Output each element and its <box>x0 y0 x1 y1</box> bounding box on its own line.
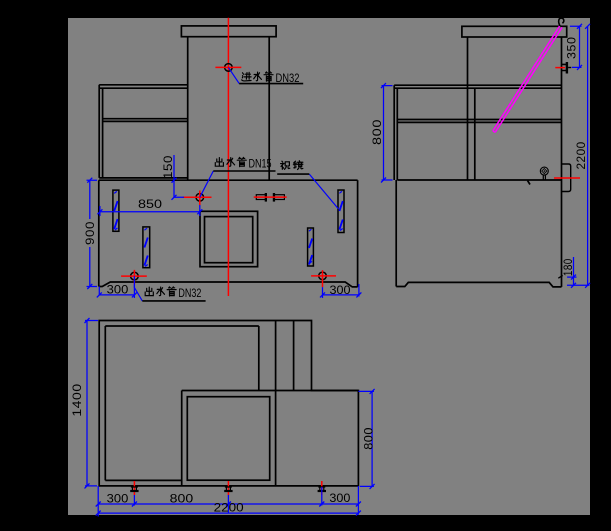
body right wall (front) <box>357 180 359 287</box>
svg-text:2200: 2200 <box>574 141 588 169</box>
tank bottom (side) <box>397 179 561 181</box>
dimension 800 (plan right) <box>358 389 375 489</box>
tank left wall (front, double) <box>99 85 102 178</box>
plan square left <box>181 391 183 486</box>
body left wall upper (side, double) <box>394 85 397 180</box>
centerline (front) <box>227 18 229 296</box>
flange union symbol (front) <box>254 193 287 202</box>
svg-text:DN15: DN15 <box>249 157 272 171</box>
side nozzle (side) <box>554 164 580 192</box>
dimension 350 (side top-right) <box>565 24 582 70</box>
tank top edge (front, double) <box>99 85 188 88</box>
chimney cap (side) <box>462 26 567 37</box>
body top edge (front) <box>99 179 358 181</box>
chimney left wall (front) <box>187 37 189 181</box>
svg-text:300: 300 <box>330 283 351 297</box>
svg-text:DN32: DN32 <box>276 71 300 85</box>
plan vertical c <box>293 321 295 391</box>
label 进水管DN32 <box>228 67 303 85</box>
top nozzle (side) <box>555 62 571 74</box>
svg-text:800: 800 <box>370 119 384 145</box>
dimension 180 (side bottom-right) <box>558 257 576 288</box>
outlet crosshair C (出水管DN32 left) <box>121 270 147 285</box>
outlet crosshair D (right) <box>311 270 336 287</box>
svg-text:850: 850 <box>138 197 163 211</box>
body right wall (side) <box>561 37 563 287</box>
dimension 1400 (plan left) <box>70 318 98 488</box>
anchor bolt 2 <box>224 481 232 495</box>
shelf (side, double) <box>397 120 561 123</box>
body bottom with feet (front) <box>99 282 358 287</box>
plan vertical b <box>275 321 277 486</box>
label 出水管DN15 <box>200 157 276 198</box>
outlet crosshair B (出水管DN15) <box>183 191 212 206</box>
vent symbol (side) <box>540 167 548 180</box>
tank divider (front, double) <box>103 119 188 122</box>
svg-text:1400: 1400 <box>70 383 84 416</box>
plan inner left <box>104 326 106 480</box>
plan outer boundary <box>99 321 358 486</box>
sight glass SG1 <box>113 190 119 231</box>
dimension 850 <box>97 197 202 216</box>
dimension 300 (front bottom-right) <box>320 283 361 298</box>
chimney cap (front) <box>181 26 276 37</box>
weld tick (side) <box>528 181 531 185</box>
plan inner top <box>105 325 258 327</box>
anchor bolt 1 <box>130 481 138 495</box>
svg-text:300: 300 <box>329 491 350 505</box>
dimension 2200 (side right) <box>567 24 590 288</box>
sight glass SG4 <box>338 190 344 233</box>
svg-text:2200: 2200 <box>214 501 244 515</box>
body left wall (front) <box>98 180 100 286</box>
svg-text:300: 300 <box>107 491 129 505</box>
plan vertical a <box>258 326 260 391</box>
dimension row 300/800/300 (plan bottom) <box>96 491 361 506</box>
inlet crosshair A (进水管DN32) <box>215 64 241 72</box>
chimney left wall (side) <box>467 37 469 180</box>
label 出水管DN32 (bottom) <box>134 276 205 301</box>
chimney right wall (front) <box>268 37 270 181</box>
svg-text:900: 900 <box>83 221 97 245</box>
svg-text:300: 300 <box>107 283 129 297</box>
manhole square outer (front) <box>200 211 258 266</box>
svg-text:180: 180 <box>561 258 575 276</box>
dimension 150 <box>161 155 184 200</box>
manhole square inner (front) <box>205 217 253 263</box>
sight glass SG2 <box>143 227 150 268</box>
chimney inner wall (side) <box>474 88 476 180</box>
tank bottom edge (front) <box>99 177 188 179</box>
svg-text:800: 800 <box>170 491 194 505</box>
body left wall lower (side) <box>395 180 397 287</box>
dimension 900 <box>83 178 97 289</box>
svg-text:DN32: DN32 <box>178 286 201 300</box>
svg-text:150: 150 <box>161 155 175 179</box>
svg-text:350: 350 <box>565 37 579 59</box>
label 视镜 <box>277 161 338 209</box>
dimension 300 (front bottom-left) <box>97 283 137 298</box>
anchor bolt 3 <box>318 481 326 495</box>
dimension 800 (side left) <box>370 83 393 182</box>
body bottom with feet (side) <box>396 282 561 287</box>
dimension 2200 (plan bottom) <box>96 501 361 516</box>
plan square inner <box>187 397 269 481</box>
body top edge (side, double) <box>394 85 561 88</box>
plan bottom extension lines <box>98 486 358 517</box>
svg-text:800: 800 <box>362 427 376 450</box>
sight glass SG3 <box>308 228 314 266</box>
agitator shaft (magenta) <box>493 18 564 132</box>
shaft hook <box>559 18 564 26</box>
plan mid horizontal <box>182 390 359 392</box>
plan inner bottom <box>105 479 181 481</box>
